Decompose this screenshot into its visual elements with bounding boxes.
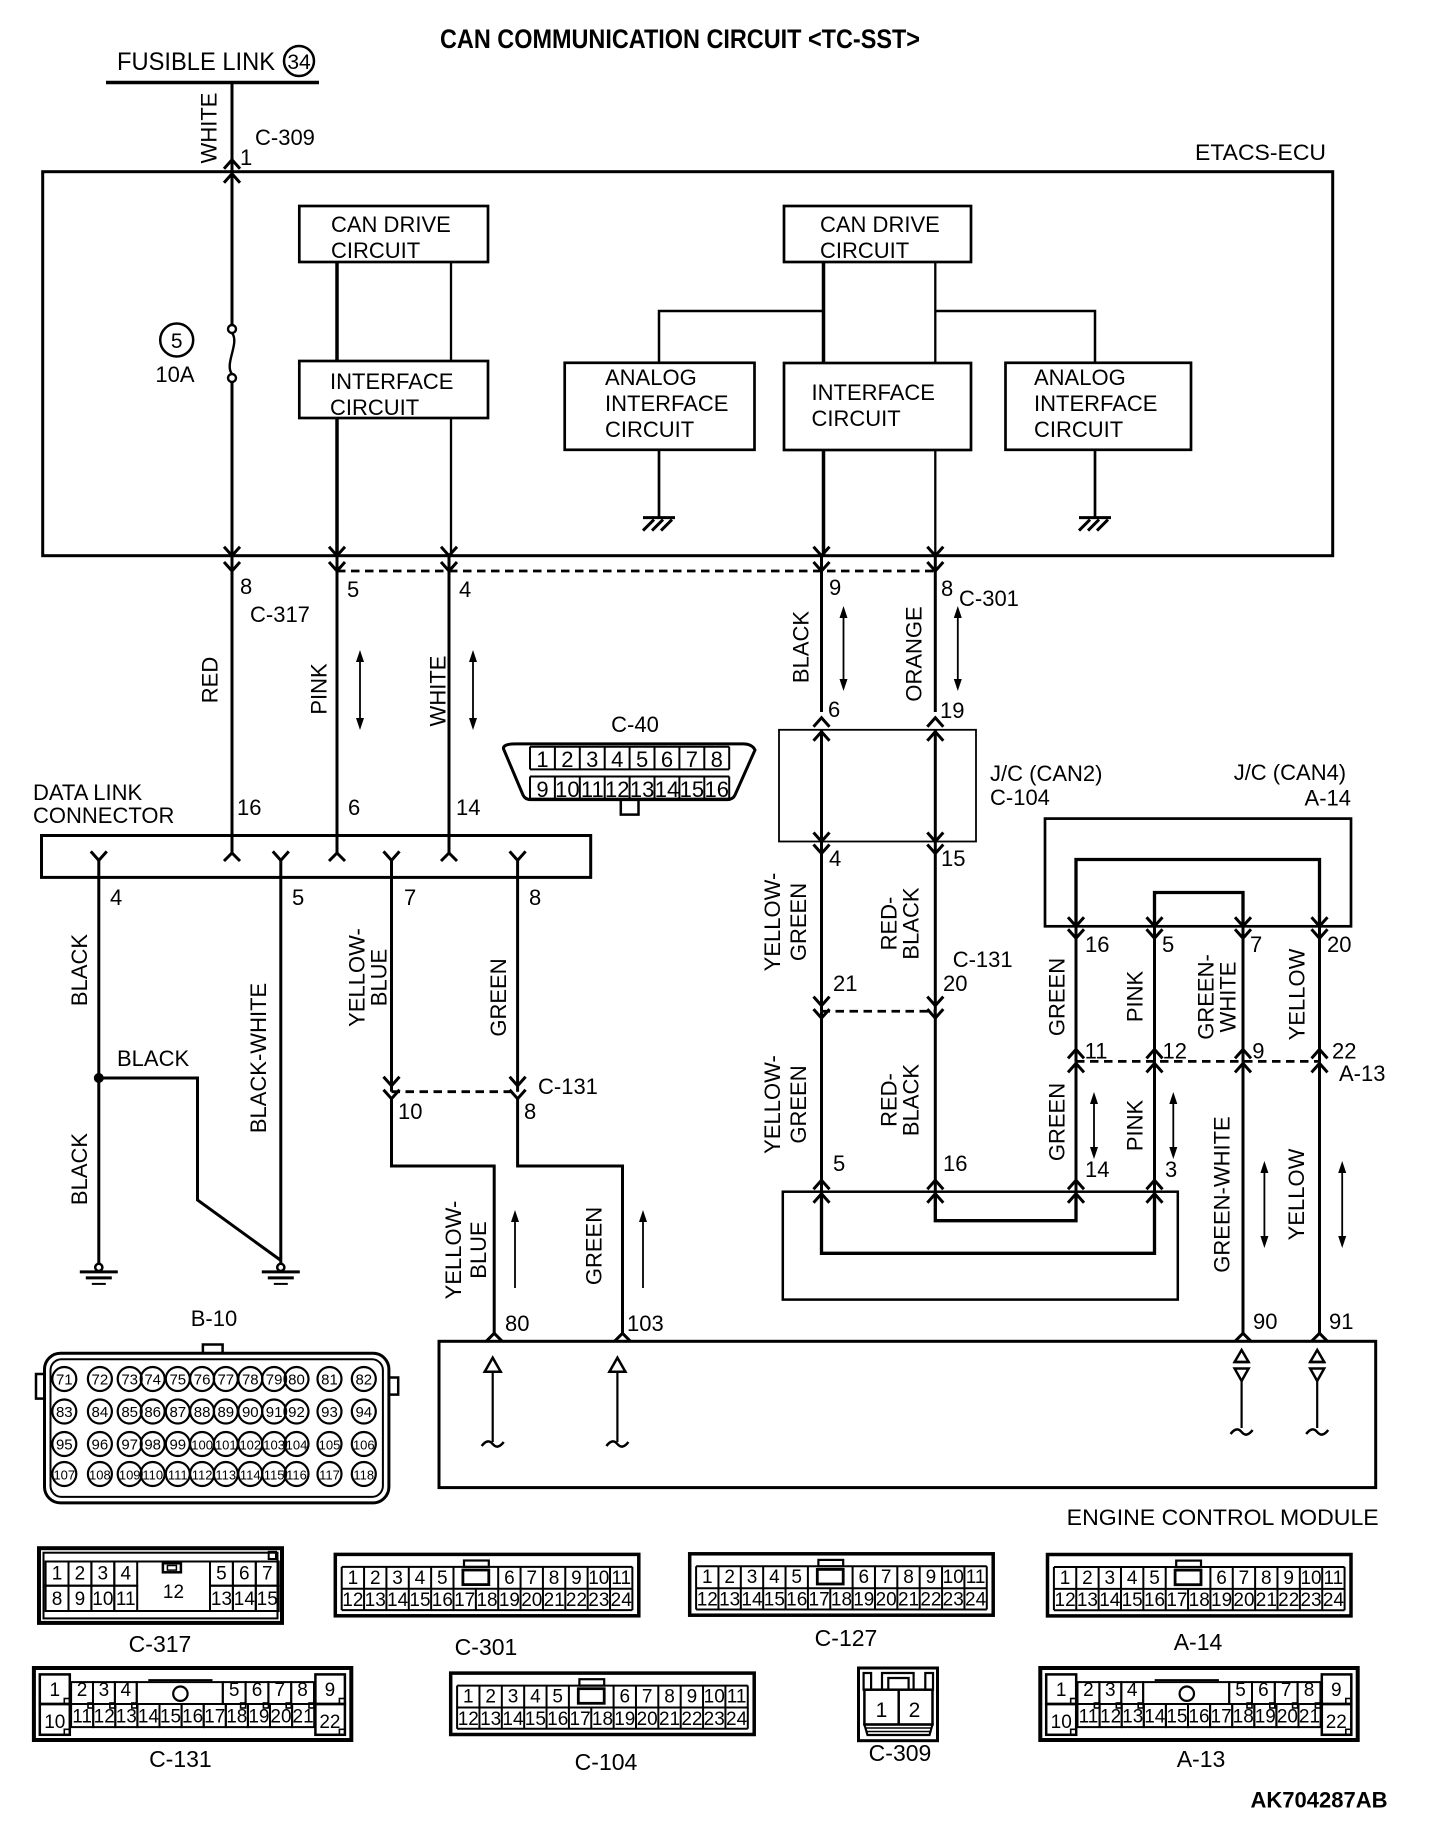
svg-text:8: 8 [664, 1687, 675, 1708]
svg-text:23: 23 [588, 1590, 609, 1611]
svg-text:23: 23 [704, 1709, 725, 1730]
svg-text:78: 78 [242, 1372, 259, 1389]
svg-text:ETACS-ECU: ETACS-ECU [1195, 140, 1326, 165]
svg-text:CIRCUIT: CIRCUIT [812, 406, 901, 431]
svg-text:1: 1 [348, 1568, 359, 1589]
svg-text:5: 5 [216, 1564, 227, 1585]
svg-text:97: 97 [121, 1437, 138, 1454]
svg-text:12: 12 [605, 777, 629, 802]
svg-text:BLACK-WHITE: BLACK-WHITE [246, 983, 271, 1133]
svg-text:9: 9 [325, 1680, 336, 1701]
svg-text:8: 8 [52, 1589, 63, 1610]
svg-text:111: 111 [168, 1468, 188, 1483]
svg-text:YELLOW-: YELLOW- [441, 1201, 466, 1300]
svg-text:106: 106 [353, 1438, 375, 1453]
svg-text:73: 73 [121, 1372, 138, 1389]
svg-text:3: 3 [392, 1568, 403, 1589]
svg-text:24: 24 [965, 1590, 987, 1611]
svg-text:10: 10 [92, 1589, 113, 1610]
svg-text:17: 17 [1211, 1707, 1232, 1728]
svg-text:17: 17 [570, 1709, 591, 1730]
svg-text:109: 109 [119, 1468, 141, 1483]
svg-text:14: 14 [387, 1590, 409, 1611]
svg-text:9: 9 [829, 575, 841, 600]
svg-text:87: 87 [169, 1404, 186, 1421]
svg-text:4: 4 [530, 1687, 541, 1708]
svg-text:90: 90 [1253, 1309, 1277, 1334]
svg-text:115: 115 [264, 1468, 285, 1483]
svg-text:3: 3 [1165, 1157, 1177, 1182]
svg-text:117: 117 [319, 1468, 340, 1483]
svg-text:4: 4 [1127, 1568, 1138, 1589]
svg-text:102: 102 [239, 1438, 261, 1453]
svg-text:19: 19 [853, 1590, 874, 1611]
svg-text:99: 99 [169, 1437, 186, 1454]
svg-text:21: 21 [1256, 1590, 1277, 1611]
svg-text:16: 16 [432, 1590, 453, 1611]
svg-text:6: 6 [239, 1564, 250, 1585]
svg-text:103: 103 [627, 1311, 664, 1336]
svg-text:20: 20 [270, 1707, 291, 1728]
svg-text:2: 2 [1083, 1680, 1094, 1701]
svg-text:21: 21 [1299, 1707, 1320, 1728]
svg-text:15: 15 [680, 777, 704, 802]
svg-text:GREEN-WHITE: GREEN-WHITE [1210, 1116, 1235, 1272]
svg-text:21: 21 [544, 1590, 565, 1611]
svg-text:2: 2 [485, 1687, 496, 1708]
svg-text:ORANGE: ORANGE [902, 606, 927, 701]
svg-text:CIRCUIT: CIRCUIT [1034, 417, 1123, 442]
svg-text:104: 104 [286, 1438, 308, 1453]
svg-text:8: 8 [240, 574, 252, 599]
svg-text:3: 3 [1105, 1568, 1116, 1589]
svg-text:GREEN: GREEN [486, 958, 511, 1036]
svg-text:8: 8 [941, 576, 953, 601]
svg-text:7: 7 [404, 885, 416, 910]
svg-text:CAN COMMUNICATION CIRCUIT <TC-: CAN COMMUNICATION CIRCUIT <TC-SST> [440, 24, 920, 54]
svg-text:76: 76 [194, 1372, 211, 1389]
svg-text:103: 103 [263, 1438, 285, 1453]
svg-text:AK704287AB: AK704287AB [1251, 1788, 1388, 1813]
svg-text:BLACK: BLACK [67, 934, 92, 1006]
svg-text:CONNECTOR: CONNECTOR [33, 803, 174, 828]
svg-text:CIRCUIT: CIRCUIT [330, 395, 419, 420]
svg-text:24: 24 [726, 1709, 748, 1730]
svg-text:GREEN: GREEN [1045, 958, 1070, 1036]
svg-text:5: 5 [791, 1567, 802, 1588]
svg-text:INTERFACE: INTERFACE [1034, 391, 1157, 416]
svg-text:19: 19 [940, 698, 964, 723]
svg-text:BLACK: BLACK [789, 611, 814, 683]
svg-text:BLACK: BLACK [67, 1133, 92, 1205]
svg-text:14: 14 [234, 1589, 256, 1610]
svg-text:18: 18 [592, 1709, 613, 1730]
svg-text:4: 4 [829, 846, 841, 871]
svg-text:13: 13 [480, 1709, 501, 1730]
svg-text:11: 11 [116, 1589, 136, 1610]
svg-text:80: 80 [505, 1311, 529, 1336]
svg-text:CAN DRIVE: CAN DRIVE [331, 212, 451, 237]
svg-text:C-104: C-104 [575, 1749, 638, 1775]
svg-text:14: 14 [138, 1707, 160, 1728]
svg-text:13: 13 [1077, 1590, 1098, 1611]
svg-text:21: 21 [898, 1590, 919, 1611]
svg-text:9: 9 [926, 1567, 937, 1588]
svg-text:2: 2 [561, 747, 573, 772]
svg-text:14: 14 [456, 795, 480, 820]
svg-text:9: 9 [1252, 1039, 1264, 1064]
svg-text:12: 12 [1100, 1707, 1121, 1728]
svg-text:3: 3 [747, 1567, 758, 1588]
svg-text:INTERFACE: INTERFACE [812, 380, 935, 405]
svg-text:24: 24 [611, 1590, 633, 1611]
svg-text:84: 84 [92, 1404, 109, 1421]
svg-text:INTERFACE: INTERFACE [605, 391, 728, 416]
svg-text:YELLOW: YELLOW [1285, 948, 1310, 1040]
svg-text:PINK: PINK [1123, 1100, 1148, 1152]
svg-text:DATA LINK: DATA LINK [33, 780, 143, 805]
svg-text:10: 10 [1051, 1712, 1072, 1733]
svg-text:C-40: C-40 [611, 712, 659, 737]
svg-text:71: 71 [56, 1372, 73, 1389]
svg-text:J/C (CAN2): J/C (CAN2) [990, 761, 1102, 786]
svg-text:12: 12 [342, 1590, 363, 1611]
svg-text:13: 13 [630, 777, 654, 802]
svg-text:INTERFACE: INTERFACE [330, 369, 453, 394]
svg-text:6: 6 [858, 1567, 869, 1588]
svg-text:15: 15 [1166, 1707, 1187, 1728]
svg-text:GREEN: GREEN [1045, 1083, 1070, 1161]
svg-text:CIRCUIT: CIRCUIT [820, 238, 909, 263]
svg-text:11: 11 [1079, 1707, 1099, 1728]
svg-text:6: 6 [348, 795, 360, 820]
svg-text:C-317: C-317 [129, 1631, 192, 1657]
svg-text:15: 15 [257, 1589, 278, 1610]
svg-text:WHITE: WHITE [197, 93, 222, 164]
svg-text:5: 5 [552, 1687, 563, 1708]
svg-text:C-309: C-309 [255, 125, 315, 150]
svg-text:7: 7 [881, 1567, 892, 1588]
svg-text:116: 116 [286, 1468, 307, 1483]
svg-text:13: 13 [365, 1590, 386, 1611]
svg-text:BLUE: BLUE [367, 949, 392, 1006]
svg-text:CIRCUIT: CIRCUIT [605, 417, 694, 442]
svg-text:12: 12 [1163, 1039, 1187, 1064]
svg-text:20: 20 [876, 1590, 897, 1611]
svg-text:8: 8 [297, 1680, 308, 1701]
svg-text:81: 81 [321, 1372, 338, 1389]
svg-text:24: 24 [1323, 1590, 1345, 1611]
svg-text:23: 23 [943, 1590, 964, 1611]
svg-text:6: 6 [252, 1680, 263, 1701]
svg-text:86: 86 [144, 1404, 161, 1421]
svg-text:100: 100 [191, 1438, 213, 1453]
svg-text:17: 17 [454, 1590, 475, 1611]
svg-text:1: 1 [1056, 1680, 1067, 1701]
svg-text:19: 19 [248, 1707, 269, 1728]
svg-text:10: 10 [44, 1712, 65, 1733]
svg-text:7: 7 [642, 1687, 653, 1708]
svg-text:C-131: C-131 [538, 1074, 598, 1099]
svg-text:22: 22 [1326, 1712, 1347, 1733]
svg-text:11: 11 [72, 1707, 92, 1728]
svg-text:2: 2 [724, 1567, 735, 1588]
svg-text:GREEN: GREEN [786, 883, 811, 961]
svg-text:4: 4 [415, 1568, 426, 1589]
svg-text:15: 15 [409, 1590, 430, 1611]
svg-text:22: 22 [1332, 1039, 1356, 1064]
svg-text:1: 1 [1060, 1568, 1071, 1589]
svg-text:18: 18 [226, 1707, 247, 1728]
svg-text:16: 16 [1085, 932, 1109, 957]
svg-text:20: 20 [943, 971, 967, 996]
svg-text:14: 14 [1099, 1590, 1121, 1611]
svg-text:7: 7 [526, 1568, 537, 1589]
svg-text:20: 20 [1327, 932, 1351, 957]
svg-text:WHITE: WHITE [1216, 962, 1241, 1033]
svg-text:ANALOG: ANALOG [1034, 365, 1126, 390]
svg-text:6: 6 [661, 747, 673, 772]
svg-text:11: 11 [1324, 1568, 1344, 1589]
svg-text:107: 107 [53, 1468, 75, 1483]
svg-text:16: 16 [1188, 1707, 1209, 1728]
svg-text:16: 16 [1144, 1590, 1165, 1611]
svg-text:6: 6 [1258, 1680, 1269, 1701]
svg-text:6: 6 [619, 1687, 630, 1708]
svg-text:C-131: C-131 [953, 947, 1013, 972]
svg-text:5: 5 [292, 885, 304, 910]
svg-text:BLUE: BLUE [466, 1221, 491, 1278]
svg-text:19: 19 [1255, 1707, 1276, 1728]
svg-text:6: 6 [1216, 1568, 1227, 1589]
svg-text:11: 11 [1085, 1039, 1108, 1064]
svg-text:PINK: PINK [307, 663, 332, 715]
svg-text:8: 8 [529, 885, 541, 910]
svg-text:3: 3 [586, 747, 598, 772]
svg-text:1: 1 [240, 145, 252, 170]
svg-text:12: 12 [163, 1582, 184, 1603]
svg-text:1: 1 [702, 1567, 713, 1588]
svg-text:RED: RED [198, 657, 223, 703]
svg-text:15: 15 [941, 846, 965, 871]
svg-text:FUSIBLE LINK: FUSIBLE LINK [117, 48, 275, 76]
svg-text:GREEN: GREEN [786, 1065, 811, 1143]
svg-text:C-127: C-127 [815, 1625, 878, 1651]
svg-text:10: 10 [704, 1687, 725, 1708]
svg-text:1: 1 [536, 747, 548, 772]
svg-text:6: 6 [828, 697, 840, 722]
svg-text:B-10: B-10 [191, 1306, 237, 1331]
svg-text:11: 11 [966, 1567, 986, 1588]
svg-text:16: 16 [786, 1590, 807, 1611]
svg-text:5: 5 [1235, 1680, 1246, 1701]
svg-text:11: 11 [581, 777, 604, 802]
svg-text:94: 94 [355, 1404, 372, 1421]
svg-text:88: 88 [194, 1404, 211, 1421]
svg-text:5: 5 [437, 1568, 448, 1589]
svg-text:82: 82 [355, 1372, 372, 1389]
svg-text:13: 13 [1122, 1707, 1143, 1728]
svg-text:7: 7 [1281, 1680, 1292, 1701]
svg-text:4: 4 [611, 747, 623, 772]
svg-text:110: 110 [142, 1468, 163, 1483]
svg-text:22: 22 [566, 1590, 587, 1611]
svg-text:ENGINE CONTROL MODULE: ENGINE CONTROL MODULE [1067, 1505, 1379, 1530]
svg-text:BLACK: BLACK [117, 1046, 189, 1071]
svg-text:1: 1 [50, 1680, 61, 1701]
svg-text:8: 8 [711, 747, 723, 772]
svg-text:1: 1 [463, 1687, 474, 1708]
svg-text:10: 10 [555, 777, 579, 802]
svg-text:74: 74 [144, 1372, 161, 1389]
svg-text:5: 5 [636, 747, 648, 772]
svg-text:95: 95 [56, 1437, 73, 1454]
svg-text:20: 20 [1233, 1590, 1254, 1611]
svg-text:10: 10 [943, 1567, 964, 1588]
svg-text:18: 18 [831, 1590, 852, 1611]
svg-text:80: 80 [288, 1372, 305, 1389]
svg-text:21: 21 [659, 1709, 680, 1730]
svg-text:YELLOW-: YELLOW- [760, 873, 785, 972]
svg-text:5: 5 [1162, 932, 1174, 957]
svg-text:4: 4 [1127, 1680, 1138, 1701]
svg-text:118: 118 [353, 1468, 374, 1483]
svg-text:15: 15 [1122, 1590, 1143, 1611]
svg-text:12: 12 [458, 1709, 479, 1730]
svg-text:112: 112 [192, 1468, 213, 1483]
svg-text:14: 14 [741, 1590, 763, 1611]
svg-text:YELLOW-: YELLOW- [760, 1055, 785, 1154]
svg-text:19: 19 [1211, 1590, 1232, 1611]
svg-text:18: 18 [476, 1590, 497, 1611]
svg-text:20: 20 [1277, 1707, 1298, 1728]
svg-text:7: 7 [686, 747, 698, 772]
svg-text:34: 34 [287, 51, 311, 74]
svg-text:7: 7 [275, 1680, 286, 1701]
svg-text:PINK: PINK [1123, 971, 1148, 1023]
svg-text:12: 12 [697, 1590, 718, 1611]
svg-text:4: 4 [459, 577, 471, 602]
svg-text:19: 19 [614, 1709, 635, 1730]
svg-text:11: 11 [611, 1568, 631, 1589]
svg-text:2: 2 [1082, 1568, 1093, 1589]
svg-text:7: 7 [1239, 1568, 1250, 1589]
svg-text:4: 4 [121, 1680, 132, 1701]
svg-text:90: 90 [242, 1404, 259, 1421]
svg-text:9: 9 [687, 1687, 698, 1708]
svg-text:16: 16 [943, 1151, 967, 1176]
svg-text:5: 5 [229, 1680, 240, 1701]
svg-text:3: 3 [1105, 1680, 1116, 1701]
svg-text:8: 8 [549, 1568, 560, 1589]
svg-text:C-317: C-317 [250, 602, 310, 627]
svg-text:BLACK: BLACK [899, 1064, 924, 1136]
svg-text:10: 10 [1300, 1568, 1321, 1589]
svg-text:BLACK: BLACK [899, 887, 924, 959]
svg-text:91: 91 [1329, 1309, 1353, 1334]
svg-text:2: 2 [909, 1699, 921, 1722]
svg-text:15: 15 [525, 1709, 546, 1730]
svg-text:3: 3 [508, 1687, 519, 1708]
svg-text:14: 14 [1144, 1707, 1166, 1728]
svg-text:19: 19 [499, 1590, 520, 1611]
svg-text:3: 3 [98, 1564, 109, 1585]
svg-text:92: 92 [288, 1404, 305, 1421]
svg-text:5: 5 [171, 330, 183, 353]
svg-text:16: 16 [705, 777, 729, 802]
svg-text:17: 17 [204, 1707, 225, 1728]
svg-text:9: 9 [75, 1589, 86, 1610]
svg-text:21: 21 [293, 1707, 314, 1728]
svg-text:7: 7 [262, 1564, 273, 1585]
svg-text:13: 13 [211, 1589, 232, 1610]
svg-text:C-301: C-301 [959, 586, 1019, 611]
svg-text:20: 20 [521, 1590, 542, 1611]
svg-text:1: 1 [52, 1564, 63, 1585]
svg-text:2: 2 [77, 1680, 88, 1701]
svg-text:A-14: A-14 [1305, 785, 1351, 810]
svg-text:22: 22 [920, 1590, 941, 1611]
svg-text:15: 15 [160, 1707, 181, 1728]
svg-text:101: 101 [215, 1438, 237, 1453]
svg-text:C-309: C-309 [869, 1740, 932, 1766]
svg-text:85: 85 [121, 1404, 138, 1421]
svg-text:GREEN: GREEN [582, 1207, 607, 1285]
svg-text:98: 98 [144, 1437, 161, 1454]
svg-text:4: 4 [769, 1567, 780, 1588]
svg-text:18: 18 [1189, 1590, 1210, 1611]
svg-text:C-104: C-104 [990, 785, 1050, 810]
svg-text:5: 5 [833, 1151, 845, 1176]
svg-text:23: 23 [1300, 1590, 1321, 1611]
svg-text:20: 20 [637, 1709, 658, 1730]
svg-text:8: 8 [1304, 1680, 1315, 1701]
svg-text:8: 8 [903, 1567, 914, 1588]
svg-text:21: 21 [833, 971, 857, 996]
svg-text:9: 9 [1283, 1568, 1294, 1589]
svg-text:2: 2 [370, 1568, 381, 1589]
svg-text:105: 105 [319, 1438, 341, 1453]
svg-text:6: 6 [504, 1568, 515, 1589]
svg-text:5: 5 [347, 577, 359, 602]
svg-text:3: 3 [99, 1680, 110, 1701]
svg-text:CIRCUIT: CIRCUIT [331, 238, 420, 263]
svg-text:10: 10 [398, 1099, 422, 1124]
svg-text:9: 9 [536, 777, 548, 802]
svg-text:79: 79 [266, 1372, 283, 1389]
svg-text:9: 9 [571, 1568, 582, 1589]
svg-text:10: 10 [588, 1568, 609, 1589]
svg-text:1: 1 [876, 1699, 888, 1722]
svg-text:22: 22 [1278, 1590, 1299, 1611]
svg-text:22: 22 [319, 1712, 340, 1733]
svg-text:16: 16 [237, 795, 261, 820]
svg-text:16: 16 [547, 1709, 568, 1730]
svg-text:9: 9 [1331, 1680, 1342, 1701]
svg-text:15: 15 [764, 1590, 785, 1611]
svg-text:4: 4 [110, 885, 122, 910]
svg-text:YELLOW: YELLOW [1284, 1148, 1309, 1240]
svg-text:91: 91 [266, 1404, 283, 1421]
svg-text:83: 83 [56, 1404, 73, 1421]
svg-text:113: 113 [215, 1468, 236, 1483]
svg-text:2: 2 [75, 1564, 86, 1585]
svg-text:ANALOG: ANALOG [605, 365, 697, 390]
svg-text:108: 108 [89, 1468, 111, 1483]
svg-text:13: 13 [116, 1707, 137, 1728]
svg-text:12: 12 [94, 1707, 115, 1728]
svg-text:5: 5 [1149, 1568, 1160, 1589]
